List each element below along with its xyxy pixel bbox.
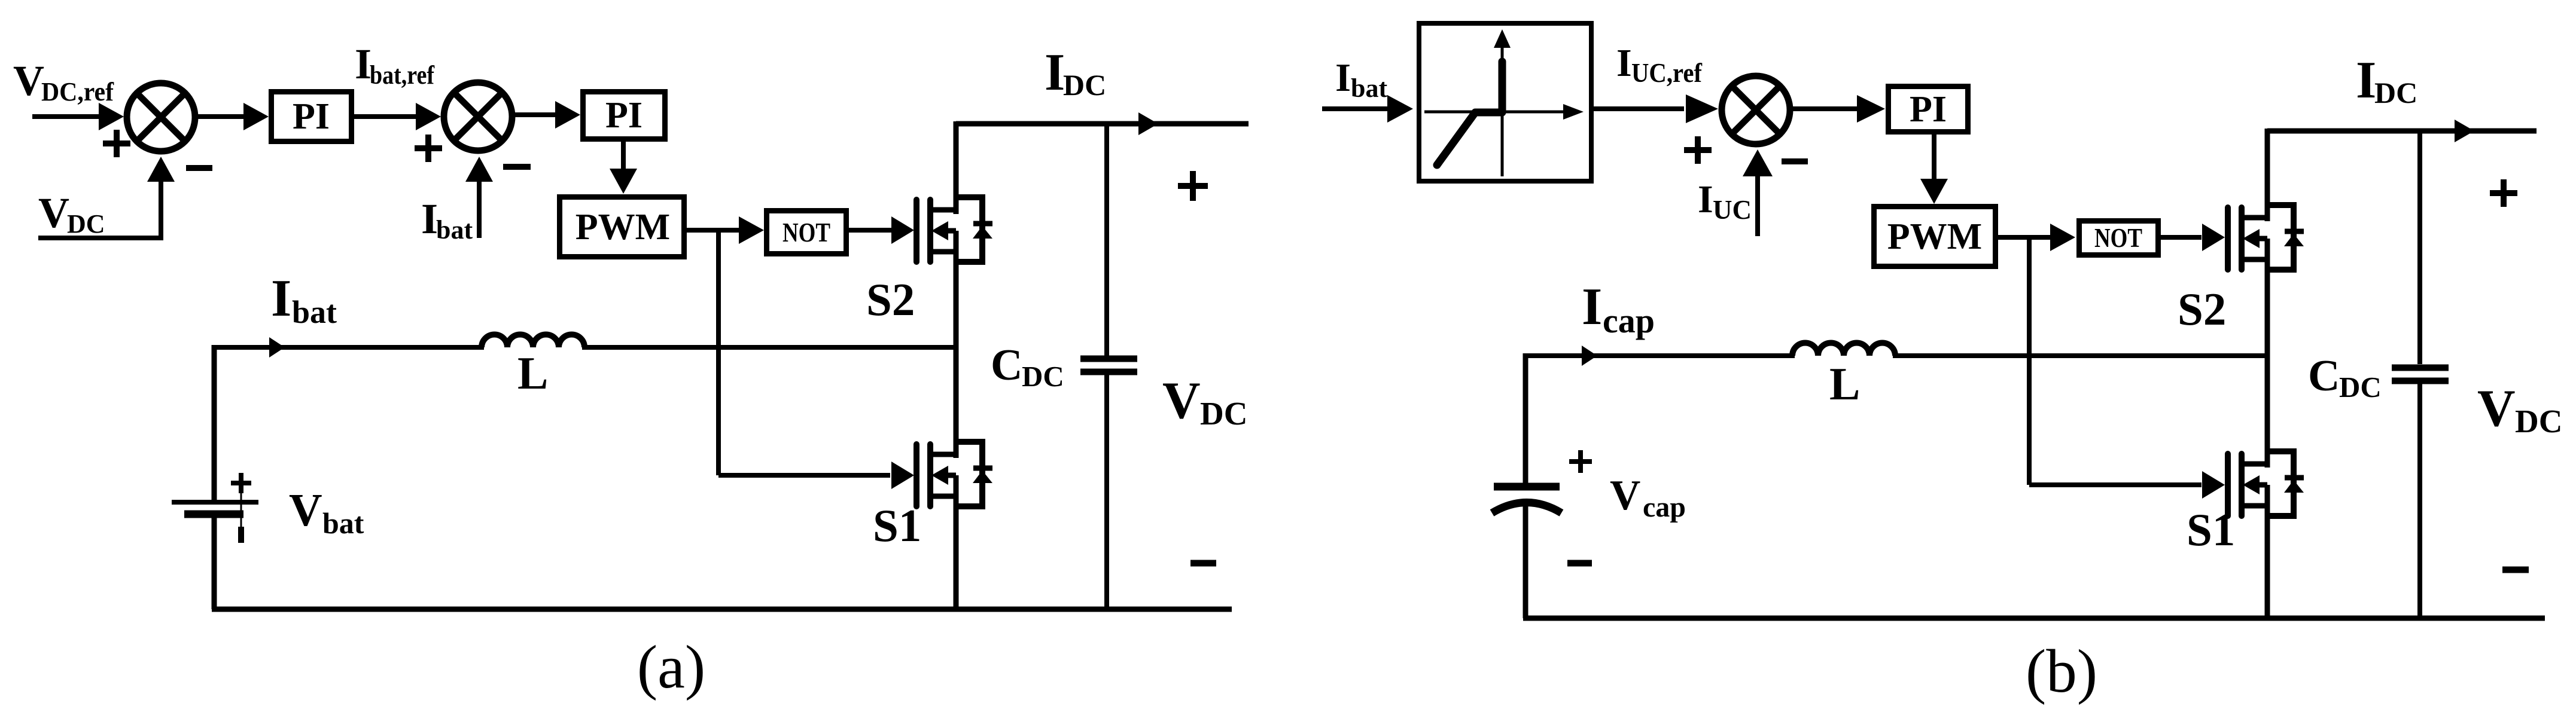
- svg-text:I: I: [2356, 51, 2376, 109]
- arrowhead into S1 gate (b): [2202, 471, 2225, 499]
- svg-text:DC: DC: [2515, 403, 2562, 439]
- arrowhead into PI2: [555, 101, 580, 129]
- arrowhead into B1: [1686, 94, 1718, 123]
- svg-text:C: C: [991, 341, 1022, 390]
- wire: A2 to PI2: [514, 112, 556, 117]
- saturation vertical axis arrowhead: [1494, 29, 1511, 48]
- arrowhead into NOT (b): [2050, 224, 2075, 251]
- PI controller box (b): [1889, 87, 1968, 132]
- wire: ultracapacitor to inductor (I_cap wire): [1525, 353, 1795, 358]
- wire: gate drive to S1 (b): [2029, 482, 2202, 487]
- minus sign at A1: [186, 165, 212, 171]
- wire: node down to S1 drain (b): [2265, 356, 2270, 468]
- wire: top DC rail: [956, 121, 1249, 127]
- svg-text:DC: DC: [2339, 371, 2382, 404]
- wire: I_bat into saturation block: [1322, 106, 1391, 111]
- svg-text:I: I: [355, 40, 372, 88]
- svg-text:S2: S2: [2178, 283, 2226, 335]
- svg-text:UC: UC: [1713, 195, 1752, 225]
- plus sign at B1: [1684, 147, 1712, 153]
- wire: S2 source down to node (b): [2265, 258, 2270, 358]
- minus sign at B1: [1782, 158, 1808, 164]
- svg-text:cap: cap: [1603, 301, 1655, 340]
- PWM box: [560, 197, 684, 257]
- svg-text:PWM: PWM: [1887, 216, 1982, 257]
- minus sign V_DC output (b): [2502, 567, 2529, 573]
- arrowhead I_UC into B1: [1743, 149, 1773, 176]
- wire: capacitor branch upper (b): [2417, 131, 2422, 364]
- minus sign at A2: [503, 164, 531, 170]
- wire: battery to inductor (I_bat wire): [214, 345, 484, 350]
- svg-text:I: I: [271, 270, 291, 328]
- svg-text:I: I: [1616, 41, 1632, 85]
- wire: left branch down to ultracapacitor: [1523, 353, 1528, 483]
- svg-text:NOT: NOT: [2094, 222, 2142, 253]
- PI controller box PI1: [272, 92, 352, 142]
- svg-text:V: V: [1162, 372, 1201, 430]
- minus sign ultracapacitor: [1567, 560, 1592, 567]
- PI controller box PI2: [583, 92, 665, 139]
- svg-text:bat: bat: [292, 294, 337, 330]
- arrowhead into PI1: [243, 103, 269, 130]
- svg-text:S1: S1: [873, 500, 921, 551]
- wire: A1 to PI1: [197, 114, 245, 119]
- battery V_bat: [172, 500, 258, 505]
- svg-text:V: V: [13, 57, 44, 105]
- arrowhead into summing junction A1: [99, 103, 124, 130]
- arrowhead into PWM (b): [1920, 179, 1948, 204]
- wire: top DC rail (b): [2267, 129, 2537, 134]
- wire: I_bat feedback into A2: [477, 179, 482, 238]
- plus sign at A2: [415, 145, 442, 151]
- arrowhead I_bat on wire: [269, 337, 285, 358]
- wire: S2 source down to node: [954, 252, 959, 350]
- wire: capacitor branch lower: [1104, 375, 1109, 609]
- wire: bottom rail (b): [1523, 616, 2545, 621]
- wire: S2 drain to rail (b): [2265, 129, 2270, 221]
- saturation horizontal axis: [1424, 111, 1566, 114]
- arrowhead into S1 gate: [891, 462, 914, 489]
- svg-text:NOT: NOT: [782, 217, 830, 248]
- wire: capacitor branch upper: [1104, 124, 1109, 356]
- wire: S1 source down to bottom rail: [954, 495, 959, 609]
- arrowhead into S2 gate (b): [2202, 224, 2225, 251]
- PWM box (b): [1874, 207, 1996, 267]
- svg-text:C: C: [2308, 352, 2340, 401]
- wire: capacitor branch lower (b): [2417, 384, 2422, 618]
- svg-text:V: V: [289, 484, 322, 536]
- wire: NOT to S2 gate: [849, 228, 893, 233]
- svg-text:I: I: [421, 195, 438, 243]
- wire: PI down to PWM (b): [1932, 135, 1936, 179]
- ultracapacitor V_cap: [1494, 483, 1560, 491]
- svg-text:DC: DC: [1063, 68, 1106, 102]
- arrowhead into PWM: [610, 169, 637, 194]
- wire: PI2 down to PWM: [621, 142, 626, 173]
- minus sign V_DC output: [1190, 560, 1216, 567]
- wire: V_DC,ref input: [32, 114, 101, 119]
- wire: I_UC feedback into B1: [1755, 173, 1760, 236]
- saturation horizontal axis arrowhead: [1563, 104, 1584, 120]
- svg-text:I: I: [1045, 44, 1065, 102]
- wire: PWM output to NOT (b): [1998, 235, 2053, 240]
- wire: S2 drain to rail: [954, 121, 959, 214]
- capacitor C_DC (b): [2392, 365, 2449, 371]
- svg-text:PWM: PWM: [576, 207, 670, 248]
- NOT box (b): [2079, 221, 2158, 255]
- wire: inductor to switch node (b): [1893, 353, 2267, 358]
- svg-text:bat: bat: [436, 215, 473, 245]
- plus sign ultracapacitor: [1569, 459, 1592, 464]
- wire: PWM output to NOT: [687, 228, 742, 233]
- wire: B1 to PI (b): [1792, 106, 1861, 111]
- wire: bottom rail: [212, 607, 1232, 612]
- svg-text:DC: DC: [1200, 395, 1247, 432]
- arrowhead I_bat into A2: [465, 157, 493, 182]
- plus sign battery: [231, 481, 251, 485]
- wire: NOT to S2 gate (b): [2161, 235, 2202, 240]
- arrowhead into S2 gate: [891, 216, 914, 244]
- plus sign V_DC output: [1178, 183, 1208, 189]
- plus sign at A1: [103, 140, 130, 146]
- arrowhead I_DC on rail (b): [2455, 120, 2474, 142]
- wire: gate drive junction down to S1 (b): [2027, 237, 2032, 485]
- transistor S1 (MOSFET, b): [2228, 451, 2304, 516]
- wire: ultracapacitor to bottom rail (b): [1523, 505, 1528, 618]
- wire: left branch down to battery: [212, 345, 217, 500]
- wire: gate drive to S1: [718, 473, 890, 478]
- svg-text:(a): (a): [637, 633, 705, 701]
- wire: S1 source down to bottom rail (b): [2265, 505, 2270, 618]
- transistor S2 (MOSFET): [916, 197, 992, 262]
- arrowhead into NOT: [739, 216, 764, 244]
- saturation block box: [1419, 23, 1591, 181]
- svg-text:PI: PI: [605, 95, 643, 136]
- arrowhead into A2: [416, 103, 441, 130]
- wire: gate drive junction down to S1: [716, 230, 721, 475]
- NOT box: [767, 211, 847, 254]
- wire: inductor to switch node: [582, 345, 956, 350]
- svg-text:I: I: [1335, 56, 1351, 100]
- svg-text:cap: cap: [1643, 491, 1686, 523]
- svg-text:V: V: [38, 189, 69, 237]
- svg-text:DC,ref: DC,ref: [41, 77, 114, 106]
- capacitor C_DC: [1080, 356, 1137, 362]
- svg-text:PI: PI: [293, 96, 330, 137]
- saturation vertical axis: [1501, 44, 1504, 176]
- arrowhead into saturation block: [1387, 95, 1413, 123]
- transistor S1 (MOSFET): [916, 442, 992, 506]
- svg-text:S1: S1: [2187, 504, 2235, 555]
- svg-text:L: L: [517, 347, 548, 399]
- wire: PI1 to summing junction A2: [354, 114, 417, 119]
- svg-text:V: V: [2477, 380, 2516, 438]
- plus sign V_DC output (b): [2490, 190, 2517, 196]
- svg-text:bat: bat: [1351, 74, 1387, 103]
- wire: saturation block to summing junction B1: [1594, 106, 1684, 111]
- svg-text:I: I: [1582, 278, 1602, 336]
- svg-text:S2: S2: [866, 274, 915, 325]
- wire: node down to S1 drain: [954, 347, 959, 458]
- summing junction A1: [127, 83, 195, 151]
- wire: battery to bottom rail: [212, 517, 217, 609]
- svg-text:bat,ref: bat,ref: [370, 60, 435, 90]
- svg-text:DC: DC: [67, 209, 105, 239]
- svg-text:PI: PI: [1910, 89, 1947, 130]
- wire: V_DC feedback: [38, 179, 161, 238]
- svg-text:L: L: [1829, 358, 1860, 410]
- svg-text:(b): (b): [2026, 637, 2097, 705]
- arrowhead into PI (b): [1857, 95, 1885, 123]
- svg-text:UC,ref: UC,ref: [1631, 58, 1703, 88]
- arrowhead I_DC on rail: [1138, 112, 1158, 135]
- svg-text:DC: DC: [2374, 76, 2417, 109]
- saturation characteristic curve: [1437, 62, 1502, 165]
- svg-text:V: V: [1610, 472, 1640, 519]
- svg-text:DC: DC: [1022, 360, 1064, 393]
- transistor S2 (MOSFET, b): [2228, 205, 2304, 270]
- arrowhead V_DC into A1: [147, 157, 175, 182]
- summing junction A2: [444, 83, 512, 151]
- inductor L: [482, 335, 584, 348]
- svg-text:bat: bat: [322, 506, 364, 540]
- inductor L (b): [1792, 343, 1895, 356]
- arrowhead I_cap on wire: [1582, 346, 1597, 366]
- svg-text:I: I: [1698, 178, 1713, 221]
- summing junction B1: [1722, 76, 1790, 144]
